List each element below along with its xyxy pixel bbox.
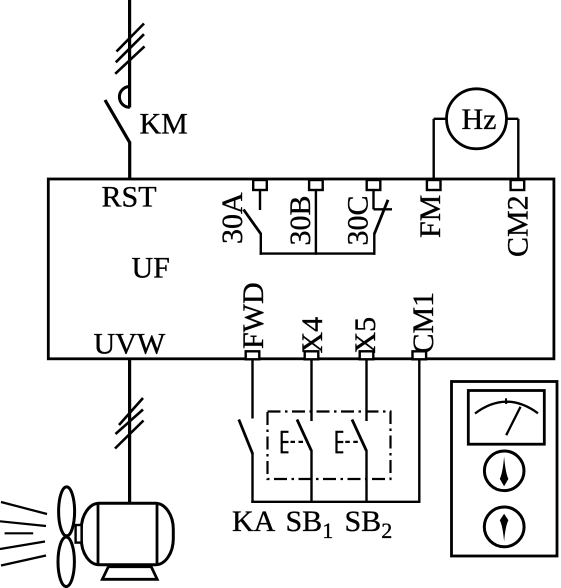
terminal X4 [305, 351, 319, 359]
wire: 30B lead [315, 190, 317, 255]
terminal 30B [309, 180, 323, 190]
switch KA (relay contact, normally open) [239, 360, 253, 504]
wire: frequency meter to CM2 [507, 119, 519, 180]
fan blade lower [58, 537, 74, 587]
panel knob up [484, 451, 524, 491]
svg-text:KA: KA [232, 505, 276, 538]
svg-text:FM: FM [414, 195, 447, 238]
wire: CM1 lead down [418, 360, 420, 504]
airflow lines from fan [0, 502, 47, 566]
inverter UF enclosure box [48, 179, 554, 359]
relay contact 30C (normally closed) [374, 190, 393, 255]
svg-text:CM1: CM1 [407, 292, 440, 354]
svg-text:KM: KM [140, 108, 188, 141]
meter scale tick [505, 398, 507, 404]
svg-text:RST: RST [102, 181, 157, 214]
motor shaft [76, 525, 82, 543]
pushbutton SB1 contact [297, 360, 312, 504]
svg-text:FWD: FWD [237, 282, 270, 349]
three-phase slash marks (supply side) [115, 24, 144, 74]
svg-text:UF: UF [132, 252, 170, 285]
terminal 30C [367, 180, 381, 190]
svg-text:30B: 30B [284, 195, 317, 245]
operator panel box [452, 382, 558, 557]
contactor KM (arc + blade) [105, 87, 130, 143]
three-phase slash marks (motor side) [115, 398, 144, 449]
pushbutton SB2 actuator (E with dashed link) [337, 432, 361, 453]
svg-text:CM2: CM2 [502, 195, 535, 257]
terminal CM1 [413, 351, 427, 359]
wire: KM to inverter R S T input [128, 142, 131, 180]
wire: three-phase supply line into contactor KM [128, 0, 131, 108]
svg-text:SB1: SB1 [286, 505, 334, 543]
relay contact 30A (normally open) [244, 190, 261, 255]
wire: inverter UVW output to motor [128, 359, 131, 504]
motor base [102, 567, 157, 580]
dash-dot enclosure around SB1 SB2 [268, 412, 391, 480]
fan blade upper [59, 487, 75, 536]
svg-text:30C: 30C [342, 195, 375, 245]
terminal FM [427, 180, 441, 190]
terminal FWD [246, 351, 260, 359]
pushbutton SB2 contact [352, 360, 367, 504]
wire: FM to frequency meter [434, 119, 448, 180]
svg-text:30A: 30A [216, 192, 249, 244]
terminal 30A [253, 180, 267, 190]
wire: bus joining 30A 30B 30C [260, 252, 376, 254]
svg-text:SB2: SB2 [345, 505, 393, 543]
svg-text:X5: X5 [349, 317, 382, 354]
motor M body [81, 503, 173, 565]
frequency meter Hz [447, 89, 507, 149]
meter scale arc [475, 402, 538, 414]
svg-text:Hz: Hz [462, 103, 497, 136]
svg-text:UVW: UVW [94, 328, 166, 361]
terminal X5 [360, 351, 374, 359]
panel meter display window [468, 391, 544, 445]
svg-text:X4: X4 [296, 317, 329, 354]
terminal CM2 [511, 180, 525, 190]
panel knob down [484, 507, 524, 547]
meter needle [506, 407, 520, 435]
wire: common bus KA SB1 SB2 to CM1 [251, 501, 419, 503]
knob up arrow [500, 457, 509, 487]
pushbutton SB1 actuator (E with dashed link) [282, 432, 306, 453]
knob down arrow [500, 514, 509, 542]
